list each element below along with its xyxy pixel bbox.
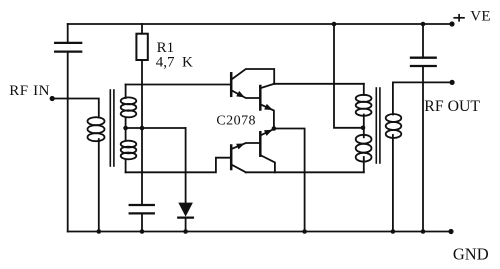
svg-text:VE: VE [470,9,491,25]
transistor Q1b emitter arrow [264,104,273,110]
node emitter ground junction [302,229,307,234]
node RF IN terminal [50,96,55,101]
wire center tap to diode [126,127,186,129]
svg-text:GND: GND [453,245,489,264]
node RF OUT terminal [450,80,455,85]
node C4 top rail [421,22,426,27]
transistor Q1b collector [261,84,274,88]
label + VE [453,14,464,22]
capacitor C4 [411,24,436,232]
node tap at coil [123,126,128,131]
transistor Q1a collector [232,69,274,84]
node C2 ground [140,229,145,234]
wire top base feed [126,84,231,86]
transistor Q1a bar [230,73,233,96]
transformer TR2 primary bottom winding [356,128,372,173]
wire top +VE rail [68,23,452,25]
transformer TR1 secondary bottom winding [121,128,137,172]
node TR2 center tap [361,126,366,131]
wire emitters to ground [274,129,305,232]
node +VE rail junction [332,22,337,27]
capacitor C2 [130,205,154,232]
wire RF IN input [52,99,99,118]
transformer TR1 secondary top winding [121,85,137,129]
transistor Q1b emitter [261,105,274,129]
transistor Q2b collector [261,155,275,172]
wire bottom base feed [126,158,231,173]
svg-text:RF IN: RF IN [9,83,50,99]
transistor Q1a emitter [232,91,259,99]
node D1 ground [183,229,188,234]
transistor Q2b emitter [261,129,274,135]
node +VE terminal [449,21,454,26]
wire GND bottom rail [68,231,451,233]
transformer TR2 secondary winding [386,82,402,231]
capacitor C1 [55,24,81,232]
transistor Q2b emitter arrow [264,130,273,136]
transistor Q2a emitter [232,143,259,149]
transformer TR2 core [376,88,380,163]
diode D1 [178,128,193,232]
transistor Q2b bar [259,132,262,156]
svg-text:C2078: C2078 [216,113,256,128]
node GND terminal [448,229,453,234]
svg-text:RF OUT: RF OUT [424,98,480,115]
transistor Q2a emitter arrow [236,144,245,150]
transistor Q2a collector [232,165,246,173]
resistor R1 [136,24,147,205]
transistor Q1b bar [259,86,262,110]
transistor Q2a bar [230,146,233,170]
node C4 ground [421,229,426,234]
transformer TR2 primary top winding [356,84,372,128]
node TR2 secondary ground [391,229,396,234]
node TR1 primary ground [97,229,102,234]
transistor Q1a emitter arrow [236,91,245,98]
wire collector bottom to TR2 [246,171,364,173]
svg-text:4,7 K: 4,7 K [156,54,193,70]
transformer TR1 core [110,90,114,166]
node emitters junction [272,126,277,131]
transformer TR1 primary winding [88,117,105,231]
node tap at bias line [140,126,145,131]
wire collector top to TR2 [274,83,364,85]
wire RF OUT line [393,81,452,83]
wire +VE to TR2 center tap [334,24,363,128]
